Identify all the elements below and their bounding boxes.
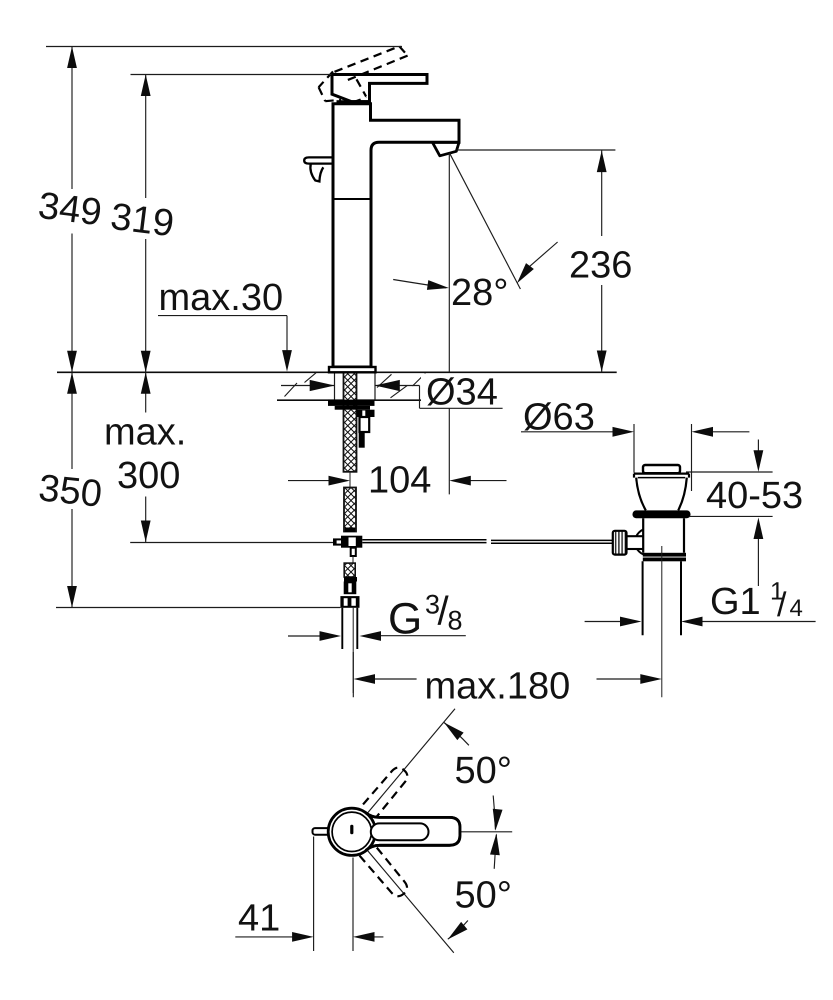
- svg-text:G1: G1: [710, 581, 761, 623]
- svg-text:104: 104: [368, 460, 431, 502]
- svg-text:319: 319: [108, 196, 176, 245]
- svg-text:8: 8: [448, 606, 463, 636]
- svg-text:50°: 50°: [455, 875, 512, 917]
- svg-text:Ø34: Ø34: [426, 372, 498, 414]
- svg-text:max.: max.: [104, 412, 186, 454]
- svg-text:350: 350: [37, 467, 104, 515]
- svg-text:/: /: [777, 586, 787, 624]
- svg-text:236: 236: [569, 245, 632, 287]
- svg-text:max.180: max.180: [425, 666, 571, 708]
- svg-text:41: 41: [238, 898, 280, 940]
- svg-text:28°: 28°: [451, 272, 508, 314]
- svg-text:4: 4: [790, 595, 803, 622]
- svg-text:Ø63: Ø63: [523, 397, 595, 439]
- svg-text:300: 300: [117, 455, 180, 497]
- svg-text:40-53: 40-53: [706, 475, 803, 517]
- svg-text:50°: 50°: [455, 750, 512, 792]
- svg-text:max.30: max.30: [159, 277, 284, 319]
- svg-text:G: G: [388, 595, 422, 644]
- svg-text:349: 349: [36, 185, 104, 234]
